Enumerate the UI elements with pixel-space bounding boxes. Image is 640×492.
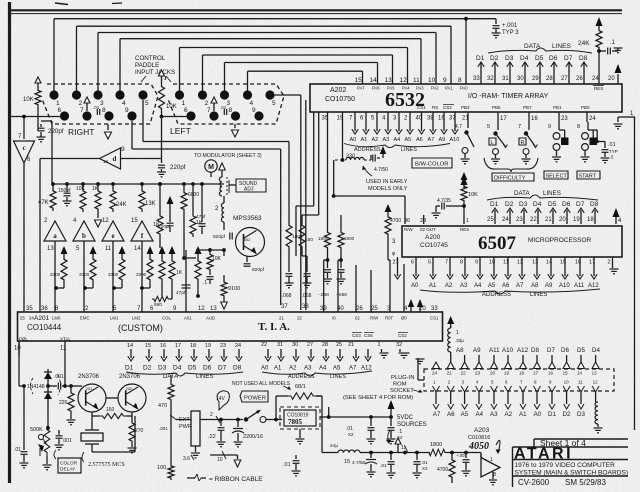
svg-text:18: 18 <box>519 371 525 376</box>
color delay box <box>58 458 81 473</box>
wire paddle bus to 6532 pin 14 <box>224 63 226 92</box>
svg-text:33: 33 <box>473 76 480 82</box>
svg-text:DATA: DATA <box>514 190 530 197</box>
svg-text:= RIBBON CABLE: = RIBBON CABLE <box>209 476 263 483</box>
svg-text:D1: D1 <box>125 365 134 372</box>
svg-text:INPUT JACKS: INPUT JACKS <box>135 69 175 76</box>
resistor 13K <box>140 182 144 186</box>
svg-text:24: 24 <box>29 316 34 321</box>
resistor 6800 <box>182 182 186 186</box>
svg-text:D2: D2 <box>143 365 152 372</box>
svg-text:10: 10 <box>564 380 570 385</box>
svg-text:1N4148: 1N4148 <box>27 384 45 390</box>
ground crystal net <box>46 426 50 430</box>
svg-text:220pf: 220pf <box>158 224 171 230</box>
svg-text:D4: D4 <box>592 347 600 354</box>
svg-text:SM 5/29/83: SM 5/29/83 <box>565 478 606 487</box>
svg-text:A10: A10 <box>502 347 514 354</box>
capacitor 220pf center <box>161 117 163 164</box>
svg-text:10K: 10K <box>212 256 222 262</box>
resistor 1K 2 <box>191 182 195 186</box>
svg-text:D8: D8 <box>579 55 588 62</box>
svg-text:12: 12 <box>102 218 109 224</box>
TIA address A12 <box>367 349 369 358</box>
wire left bottom <box>18 385 20 387</box>
svg-text:47pf: 47pf <box>196 214 206 220</box>
svg-text:(SEE SHEET 4 FOR ROM): (SEE SHEET 4 FOR ROM) <box>343 395 413 401</box>
svg-text:26: 26 <box>576 76 583 82</box>
6507 address A0 <box>415 257 417 276</box>
resistor 24K <box>111 182 115 186</box>
svg-text:.22: .22 <box>208 434 216 440</box>
node dots mid <box>158 182 162 186</box>
6507 address A5 <box>493 257 495 276</box>
svg-text:25: 25 <box>336 342 342 348</box>
wire CS1 chain <box>429 340 431 342</box>
svg-text:(CUSTOM): (CUSTOM) <box>118 323 163 333</box>
switch SELECT <box>558 122 560 130</box>
svg-text:e: e <box>111 232 114 240</box>
svg-text:A0: A0 <box>534 411 542 418</box>
svg-text:150pf: 150pf <box>58 188 71 194</box>
power arrow TIA pin 33 <box>417 299 423 307</box>
svg-text:2: 2 <box>210 412 213 418</box>
6507 data D5 <box>552 210 554 224</box>
svg-text:1K: 1K <box>92 186 99 192</box>
svg-text:CS2: CS2 <box>443 105 452 110</box>
wire crystal bottom <box>92 451 135 453</box>
svg-text:10: 10 <box>14 346 21 352</box>
capacitor -.068 d <box>340 215 342 230</box>
svg-text:9: 9 <box>548 124 551 130</box>
wire paddle bus to 6532 pin 9 <box>76 26 78 91</box>
capacitor -.068 b <box>301 250 303 256</box>
border frame <box>8 2 11 483</box>
svg-text:16: 16 <box>531 116 538 122</box>
svg-text:10: 10 <box>217 457 223 463</box>
svg-text:.01: .01 <box>283 462 291 468</box>
TIA address A3 <box>310 349 312 358</box>
svg-text:10K: 10K <box>166 104 177 110</box>
resistor 3300 aud <box>159 246 166 254</box>
wire 5VDC rail <box>329 416 391 418</box>
svg-text:14: 14 <box>134 246 141 252</box>
resistor 220 <box>70 386 72 390</box>
svg-text:COLOR: COLOR <box>60 461 78 467</box>
ROM socket bottom arrows <box>435 392 437 404</box>
svg-text:8: 8 <box>458 77 462 84</box>
resistor aud 3 <box>195 246 202 254</box>
svg-text:23: 23 <box>516 217 523 223</box>
ROM socket pin 23/4 <box>476 362 483 369</box>
svg-text:36: 36 <box>404 218 410 224</box>
wire select to rail <box>564 130 566 138</box>
TIA address A7 <box>355 349 357 358</box>
ground arrow under LEFT pin9 <box>234 124 236 128</box>
svg-text:10K: 10K <box>468 192 478 198</box>
capacitor -.068 c <box>327 224 329 230</box>
svg-text:PB7: PB7 <box>523 105 532 110</box>
svg-text:3: 3 <box>100 100 104 107</box>
address line A4 <box>398 120 400 131</box>
label DIFFICULTY <box>492 173 534 181</box>
svg-text:T. I. A.: T. I. A. <box>258 321 290 333</box>
wire 10K to LEFT pin6 <box>162 116 192 118</box>
TIA address A1 <box>280 349 282 358</box>
svg-text:A2: A2 <box>289 366 297 372</box>
6507 address A10 <box>564 257 566 276</box>
wire buffer c output <box>23 163 25 310</box>
svg-text:12: 12 <box>400 77 408 84</box>
svg-text:A12: A12 <box>588 283 599 289</box>
svg-text:200: 200 <box>126 386 133 391</box>
svg-text:PB6: PB6 <box>492 105 501 110</box>
svg-text:20: 20 <box>608 76 615 82</box>
wire analog rail <box>52 183 224 185</box>
6507 address A2 <box>449 257 451 276</box>
address line A5 <box>409 120 411 131</box>
svg-text:7: 7 <box>207 107 211 114</box>
svg-text:A2: A2 <box>505 411 513 418</box>
svg-text:D6: D6 <box>562 201 571 208</box>
svg-text:+.001: +.001 <box>502 23 518 29</box>
svg-text:8: 8 <box>229 107 233 114</box>
resistor 10K center <box>159 70 165 76</box>
label B/W-COLOR box <box>412 158 452 168</box>
svg-text:31: 31 <box>502 76 509 82</box>
wire osc junction <box>196 249 224 251</box>
svg-text:Ø0: Ø0 <box>401 316 407 321</box>
svg-text:A7: A7 <box>349 366 357 372</box>
ROM socket pin 16/9 <box>549 362 556 369</box>
svg-text:D6: D6 <box>561 347 569 354</box>
resistor 3300 <box>119 246 126 254</box>
svg-text:D3: D3 <box>158 365 167 372</box>
svg-text:LEFT: LEFT <box>170 126 191 136</box>
svg-text:4.7: 4.7 <box>455 124 462 130</box>
wire start to rail <box>592 130 594 138</box>
svg-text:6507: 6507 <box>478 233 517 254</box>
wire power line <box>176 419 191 421</box>
6507 address A3 <box>464 257 466 276</box>
svg-text:23: 23 <box>220 343 226 349</box>
svg-text:23: 23 <box>475 371 481 376</box>
capacitor .001 TYP 3 <box>495 19 497 24</box>
svg-text:CO10745: CO10745 <box>420 242 448 249</box>
svg-text:D1: D1 <box>490 201 499 208</box>
wire paddle bus to 6532 pin 13 <box>202 55 204 91</box>
svg-text:25: 25 <box>20 316 25 321</box>
resistor 160 h <box>91 412 93 416</box>
svg-text:9: 9 <box>125 107 129 114</box>
svg-text:ADDRESS: ADDRESS <box>354 147 381 153</box>
wire regulator out <box>320 416 329 418</box>
6532 bottom pin row <box>327 112 329 120</box>
resistor 47K <box>50 188 56 211</box>
svg-text:12: 12 <box>593 380 599 385</box>
ROM socket pin 15/10 <box>563 362 570 369</box>
svg-text:NOT USED ALL MODELS: NOT USED ALL MODELS <box>232 381 291 387</box>
svg-text:D7: D7 <box>564 55 573 62</box>
svg-text:COL: COL <box>162 316 171 321</box>
svg-text:c: c <box>22 144 25 152</box>
svg-text:820pf: 820pf <box>252 267 265 273</box>
svg-text:LINES: LINES <box>552 43 571 50</box>
svg-text:31: 31 <box>277 342 283 348</box>
ROM socket pin 21/2 <box>447 362 454 369</box>
svg-text:PB1: PB1 <box>553 105 562 110</box>
svg-text:15: 15 <box>145 343 151 349</box>
svg-text:28: 28 <box>322 342 328 348</box>
svg-text:24: 24 <box>432 371 438 376</box>
address line A1 <box>365 120 367 131</box>
svg-text:A5: A5 <box>488 283 496 289</box>
inductor ROM pin12 <box>595 392 597 402</box>
svg-text:47K: 47K <box>38 200 49 206</box>
svg-text:D5: D5 <box>188 365 197 372</box>
svg-text:D7: D7 <box>547 347 555 354</box>
svg-text:D6: D6 <box>203 365 212 372</box>
svg-text:A6: A6 <box>447 411 455 418</box>
svg-text:35: 35 <box>26 306 33 312</box>
svg-text:.001: .001 <box>62 438 72 444</box>
6507 address A6 <box>507 257 509 276</box>
svg-text:8: 8 <box>577 124 580 130</box>
power arrow sound <box>219 163 225 170</box>
svg-text:6800: 6800 <box>188 192 199 198</box>
svg-text:12: 12 <box>198 306 205 312</box>
svg-text:9: 9 <box>121 146 125 153</box>
svg-text:10K: 10K <box>76 186 86 192</box>
address line A9 <box>443 120 445 131</box>
svg-text:3300: 3300 <box>108 272 119 277</box>
svg-text:47pf: 47pf <box>176 290 186 296</box>
wire bus corner 3 <box>296 205 314 207</box>
label SELECT <box>544 171 568 179</box>
svg-text:02 OUT: 02 OUT <box>420 227 436 232</box>
svg-text:CS2: CS2 <box>398 333 407 338</box>
svg-text:160: 160 <box>106 407 115 413</box>
svg-text:220pf: 220pf <box>170 164 186 171</box>
svg-text:D4: D4 <box>533 201 542 208</box>
svg-text:1976 to 1979 VIDEO COMPUTER: 1976 to 1979 VIDEO COMPUTER <box>515 462 616 469</box>
svg-text:PB0: PB0 <box>581 105 590 110</box>
svg-text:28: 28 <box>546 76 553 82</box>
svg-text:3300: 3300 <box>79 272 90 277</box>
svg-text:.001: .001 <box>54 374 64 380</box>
wire 02 to ground <box>435 211 437 213</box>
svg-text:CS3: CS3 <box>352 333 361 338</box>
wire paddle bus to 6532 pin 10 <box>97 33 99 92</box>
svg-text:21: 21 <box>447 371 453 376</box>
svg-text:A1: A1 <box>274 366 282 372</box>
svg-text:02: 02 <box>355 316 360 321</box>
svg-text:A5: A5 <box>405 137 412 143</box>
svg-text:PADDLE: PADDLE <box>135 62 159 69</box>
wire buffer d output <box>40 158 100 160</box>
svg-text:D7: D7 <box>576 201 585 208</box>
switch DIFFICULTY L <box>497 122 499 130</box>
svg-text:24: 24 <box>592 76 599 82</box>
svg-text:16: 16 <box>160 343 166 349</box>
ground regulator <box>299 429 301 438</box>
svg-text:A200: A200 <box>425 234 441 241</box>
resistor 4700 mid <box>385 204 392 212</box>
modulator jack M <box>205 160 217 172</box>
capacitor 2200/16 <box>236 418 240 422</box>
svg-text:13: 13 <box>103 159 109 164</box>
crystal 2.577575 MCS <box>91 416 93 430</box>
power arrow at RIGHT pin7 <box>84 97 90 103</box>
svg-text:A2: A2 <box>445 283 453 289</box>
capacitor .1 top right <box>599 50 606 52</box>
svg-text:1: 1 <box>490 457 493 463</box>
wire aud pin9 <box>185 250 187 312</box>
svg-text:A4: A4 <box>394 137 401 143</box>
wire TIA pin10 to diodes <box>18 341 20 386</box>
svg-text:A11: A11 <box>489 347 500 354</box>
svg-text:24: 24 <box>235 343 241 349</box>
svg-text:11: 11 <box>578 380 583 385</box>
svg-text:2: 2 <box>608 260 611 266</box>
svg-text:A7: A7 <box>428 137 435 143</box>
svg-text:XTAL: XTAL <box>60 337 71 342</box>
capacitor +.001 bottom <box>465 453 467 459</box>
connector EXT PWR <box>191 411 200 446</box>
svg-text:A10: A10 <box>450 137 460 143</box>
svg-text:A01: A01 <box>184 316 192 321</box>
wire hbus to 1800s <box>303 309 305 311</box>
left caps col <box>321 407 323 453</box>
svg-text:100: 100 <box>157 465 166 471</box>
resistor 4700 bottom <box>451 453 453 458</box>
svg-text:.33μ: .33μ <box>455 338 464 343</box>
resistor 68 <box>288 393 316 399</box>
ROM socket pin 19/6 <box>505 362 512 369</box>
TIA address A5 <box>339 349 341 358</box>
svg-text:A9: A9 <box>473 347 481 354</box>
wire top bus extension <box>466 18 496 20</box>
svg-text:PA7: PA7 <box>357 86 365 91</box>
ground pin1 <box>618 116 622 118</box>
power arrow below B/W <box>461 176 468 185</box>
svg-text:PØL: PØL <box>19 337 29 342</box>
svg-text:START: START <box>579 174 597 180</box>
svg-text:5VDC: 5VDC <box>397 415 414 421</box>
svg-text:A1: A1 <box>519 411 527 418</box>
power arrow at LEFT pin7 <box>211 97 217 103</box>
wire left col 470 <box>170 375 172 382</box>
wire op-amp output <box>83 241 85 312</box>
svg-text:A0: A0 <box>261 366 269 372</box>
svg-text:LM2: LM2 <box>132 316 141 321</box>
svg-text:15: 15 <box>563 371 569 376</box>
svg-text:22: 22 <box>530 217 537 223</box>
svg-text:d: d <box>113 155 117 163</box>
svg-text:.001: .001 <box>159 426 168 431</box>
svg-text:A3: A3 <box>304 366 312 372</box>
svg-text:-.068: -.068 <box>280 293 292 299</box>
svg-text:R/W: R/W <box>370 316 379 321</box>
svg-text:A2: A2 <box>372 137 379 143</box>
svg-text:11: 11 <box>60 346 67 352</box>
wire TIA pins 26 25 up <box>355 265 357 312</box>
svg-text:820pf: 820pf <box>213 234 226 240</box>
svg-text:500K: 500K <box>30 427 43 433</box>
svg-text:D5: D5 <box>535 55 544 62</box>
wire c output to TIA pin35 <box>23 310 25 312</box>
6507 data D6 <box>566 210 568 224</box>
svg-text:A201: A201 <box>34 315 50 322</box>
svg-text:TO MODULATOR (SHEET 3): TO MODULATOR (SHEET 3) <box>194 153 262 159</box>
svg-text:ATARI: ATARI <box>514 446 573 463</box>
capacitor 150pf <box>65 182 69 186</box>
svg-text:6: 6 <box>411 260 414 266</box>
wire diode node <box>47 399 49 428</box>
svg-text:SOCKET: SOCKET <box>390 388 414 394</box>
6507 address A11 <box>579 257 581 276</box>
svg-text:D8: D8 <box>590 201 599 208</box>
label START <box>577 171 600 179</box>
svg-text:19: 19 <box>504 371 510 376</box>
svg-text:1: 1 <box>378 342 381 348</box>
svg-text:19: 19 <box>205 343 211 349</box>
brace difficulty <box>484 158 538 172</box>
wire buffer input <box>480 454 482 458</box>
address line A3 <box>387 120 389 131</box>
capacitor 47pf aud <box>182 284 191 286</box>
svg-text:1: 1 <box>466 218 469 224</box>
svg-text:15: 15 <box>131 218 138 224</box>
svg-text:1800: 1800 <box>430 442 442 448</box>
svg-text:D3: D3 <box>505 55 514 62</box>
capacitor 47pf <box>201 215 203 222</box>
svg-text:DELAY: DELAY <box>60 467 76 473</box>
capacitor 220pf mid <box>169 215 171 222</box>
svg-text:A203: A203 <box>474 427 490 434</box>
svg-text:13: 13 <box>592 371 598 376</box>
svg-text:A4: A4 <box>319 366 327 372</box>
svg-text:24: 24 <box>589 116 596 122</box>
wire junction row <box>332 194 336 198</box>
ground 6507 pin2 <box>612 257 614 268</box>
svg-text:15: 15 <box>355 77 363 84</box>
svg-text:LINES: LINES <box>196 374 213 380</box>
svg-text:4.7/50: 4.7/50 <box>374 167 388 173</box>
svg-text:A6: A6 <box>416 137 423 143</box>
resistor 680 h <box>152 296 170 301</box>
svg-text:A5: A5 <box>461 411 469 418</box>
svg-text:MPS3563: MPS3563 <box>233 215 262 222</box>
svg-text:X2: X2 <box>348 432 354 437</box>
power arrow small node <box>395 438 401 444</box>
6507 address A9 <box>550 257 552 276</box>
wire op-amp output <box>54 241 56 312</box>
capacitor .01 TYP 5 <box>597 141 605 143</box>
svg-text:DIFFICULTY: DIFFICULTY <box>494 176 526 182</box>
svg-text:PB3: PB3 <box>461 105 470 110</box>
switch START <box>587 122 589 130</box>
resistor 10K osc <box>209 248 211 252</box>
svg-text:6: 6 <box>184 107 188 114</box>
svg-text:2.577575 MCS: 2.577575 MCS <box>88 462 125 468</box>
svg-text:A1: A1 <box>361 137 368 143</box>
svg-text:22: 22 <box>261 342 267 348</box>
resistor 24K <box>596 17 603 26</box>
6507 data D2 <box>509 210 511 224</box>
6507 data D4 <box>537 210 539 224</box>
svg-text:3300: 3300 <box>136 272 147 277</box>
